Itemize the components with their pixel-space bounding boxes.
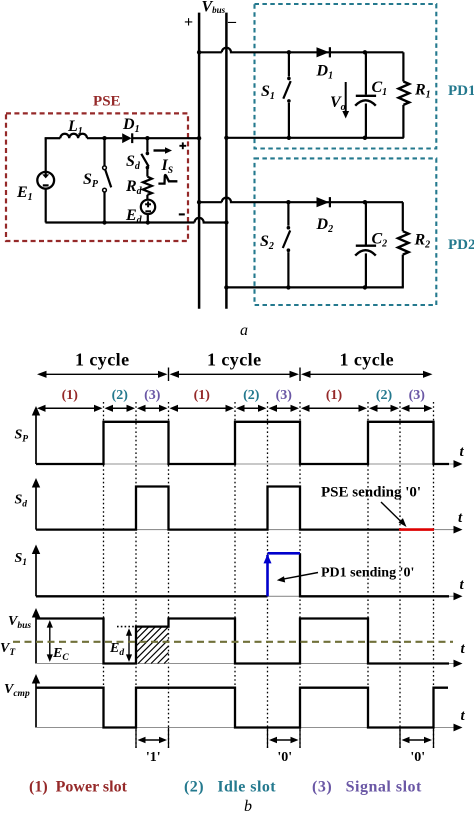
capacitor C2 [365, 202, 367, 244]
PD2 box [255, 158, 437, 305]
Vbus axis [35, 616, 37, 664]
wire Ed to bottom [147, 214, 149, 223]
Ed measure arrow [128, 630, 130, 660]
resistor R1 [402, 52, 404, 81]
svg-text:'0': '0' [277, 750, 292, 765]
svg-text:Vcmp: Vcmp [4, 682, 30, 699]
svg-text:(2): (2) [112, 388, 129, 403]
junction: -bus / PD2 bottom [224, 285, 228, 289]
svg-text:(2): (2) [243, 388, 260, 403]
svg-text:a: a [240, 322, 248, 339]
svg-text:S1: S1 [15, 551, 28, 568]
vertical slot-boundary dotted gridlines [103, 402, 105, 729]
svg-text:C2: C2 [372, 231, 388, 250]
svg-text:R1: R1 [414, 82, 431, 101]
resistor Rd [143, 177, 152, 195]
svg-text:1 cycle: 1 cycle [339, 350, 394, 370]
svg-text:t: t [460, 444, 465, 460]
S1 blue pulse: PD1 sending 0 [266, 555, 269, 596]
junction: S2 top [286, 200, 290, 204]
junction: S2 bottom [286, 285, 290, 289]
junction: C1 top [363, 50, 367, 54]
resistor R2 [402, 202, 404, 231]
svg-text:(2) Idle slot: (2) Idle slot [184, 779, 276, 796]
junction: -bus / PSE- [224, 220, 228, 224]
Ed hatched area [136, 627, 143, 634]
svg-text:1 cycle: 1 cycle [75, 350, 130, 370]
switch Sd [146, 138, 148, 152]
VT threshold dashed line [13, 641, 453, 643]
svg-text:IS: IS [161, 157, 174, 176]
svg-text:t: t [458, 510, 463, 526]
bit marker 0 (cycle 3) [399, 728, 401, 749]
bus positive rail [198, 13, 201, 309]
wire L1 to D1 [87, 137, 122, 139]
IS pulse glyph [158, 175, 177, 184]
slot span arrows [39, 407, 101, 409]
junction: -bus / PD1 bottom [224, 136, 228, 140]
junction: C2 top [363, 200, 367, 204]
Sd trace [36, 487, 399, 530]
wire Rd to Ed [146, 195, 148, 200]
Vcmp trace [36, 688, 448, 728]
source E1 [37, 172, 54, 189]
svg-text:'0': '0' [410, 750, 425, 765]
PD1 box [255, 4, 437, 149]
svg-text:(1): (1) [326, 388, 343, 403]
svg-text:Vbus: Vbus [202, 0, 226, 16]
svg-text:D2: D2 [316, 216, 334, 235]
svg-text:PSE: PSE [93, 94, 121, 110]
wire E1 bottom [45, 189, 47, 223]
svg-text:C1: C1 [372, 79, 388, 98]
source Ed [141, 200, 155, 214]
svg-text:R2: R2 [414, 232, 431, 251]
svg-text:Rd: Rd [125, 178, 143, 197]
output voltage Vo arrow [345, 82, 347, 112]
junction: SP bottom [102, 220, 106, 224]
S1 trace (black) [36, 595, 268, 597]
svg-text:(1): (1) [194, 388, 211, 403]
svg-text:SP: SP [15, 428, 29, 445]
junction: Sd tap [145, 136, 149, 140]
bit marker 1 [135, 728, 137, 749]
bus negative rail [225, 13, 228, 309]
svg-text:D1: D1 [316, 63, 334, 82]
junction: S1 bottom [287, 136, 291, 140]
junction: SP top [102, 136, 106, 140]
svg-text:PD1: PD1 [448, 83, 474, 99]
svg-text:b: b [244, 798, 252, 814]
svg-text:(3): (3) [144, 388, 161, 403]
junction: Ed bottom [146, 220, 150, 224]
svg-text:'1': '1' [146, 750, 161, 765]
inductor L1 [60, 134, 87, 138]
wire E1 top [45, 138, 47, 172]
svg-text:Sd: Sd [15, 493, 28, 510]
wire to inductor [45, 137, 61, 139]
wire: PSE output+ to +bus [188, 137, 199, 139]
svg-text:–: – [227, 13, 237, 30]
svg-text:D1: D1 [122, 116, 140, 135]
diode D1 (PD1) [317, 47, 330, 57]
wire: +bus to PD1 top rail (hops -bus) [199, 48, 403, 53]
Sd axis [35, 486, 37, 530]
Ed dotted leader [117, 626, 136, 628]
cycle span arrows [39, 373, 166, 375]
PSE output + [179, 145, 186, 147]
wire: +bus to PD2 top rail (hops -bus) [199, 198, 403, 203]
svg-text:VT: VT [0, 641, 16, 658]
switch S1 [288, 52, 290, 76]
svg-text:S2: S2 [260, 233, 274, 252]
svg-text:E1: E1 [16, 184, 33, 203]
switch SP [103, 138, 105, 166]
svg-text:Ed: Ed [109, 641, 124, 658]
svg-text:(2): (2) [376, 388, 393, 403]
PSE bottom wire (hops +bus, joins -bus) [45, 218, 226, 223]
svg-text:(3): (3) [409, 388, 426, 403]
switch S2 [287, 202, 289, 226]
Vcmp axis [35, 682, 37, 728]
EC measure arrow [49, 622, 51, 660]
diode D2 [317, 197, 330, 207]
svg-text:PSE sending '0': PSE sending '0' [321, 485, 421, 501]
S1 axis [35, 553, 37, 597]
bit marker 0 (cycle 2) [267, 728, 269, 749]
PSE box [6, 113, 188, 241]
svg-text:SP: SP [83, 171, 99, 190]
current IS arrow [154, 149, 167, 151]
SP axis [35, 414, 37, 464]
junction: S1 top [287, 50, 291, 54]
svg-text:PD2: PD2 [448, 237, 474, 253]
svg-text:PD1 sending '0': PD1 sending '0' [321, 566, 414, 581]
svg-text:t: t [461, 708, 466, 724]
svg-text:t: t [461, 641, 466, 657]
capacitor C1 [365, 52, 367, 94]
svg-text:t: t [460, 577, 465, 593]
svg-text:1 cycle: 1 cycle [207, 350, 262, 370]
svg-text:(1): (1) [62, 388, 79, 403]
svg-text:(1) Power slot: (1) Power slot [29, 779, 128, 796]
svg-text:Sd: Sd [126, 153, 141, 172]
svg-text:Vbus: Vbus [8, 614, 31, 631]
wire: -bus to PD2 bottom rail [226, 286, 403, 288]
diode D1 (PSE) [122, 133, 131, 143]
wire: -bus to PD1 bottom rail [226, 137, 403, 139]
wire D1 to box edge [132, 137, 188, 139]
junction: +bus / PD1 top [197, 50, 201, 54]
svg-text:(3): (3) [276, 388, 293, 403]
svg-text:+: + [184, 14, 193, 31]
Vbus trace [36, 619, 449, 664]
SP trace [36, 422, 449, 464]
junction: C1 bottom [363, 136, 367, 140]
svg-text:Vo: Vo [330, 94, 346, 113]
junction: +bus / PSE+ [197, 136, 201, 140]
Sd red segment: PSE sending 0 [399, 528, 434, 531]
junction: C2 bottom [363, 285, 367, 289]
svg-text:(3) Signal slot: (3) Signal slot [312, 779, 422, 796]
svg-text:S1: S1 [261, 83, 275, 102]
svg-text:EC: EC [52, 646, 69, 663]
junction: +bus / PD2 top [197, 200, 201, 204]
PSE output - [179, 213, 185, 215]
svg-text:L1: L1 [67, 118, 83, 137]
